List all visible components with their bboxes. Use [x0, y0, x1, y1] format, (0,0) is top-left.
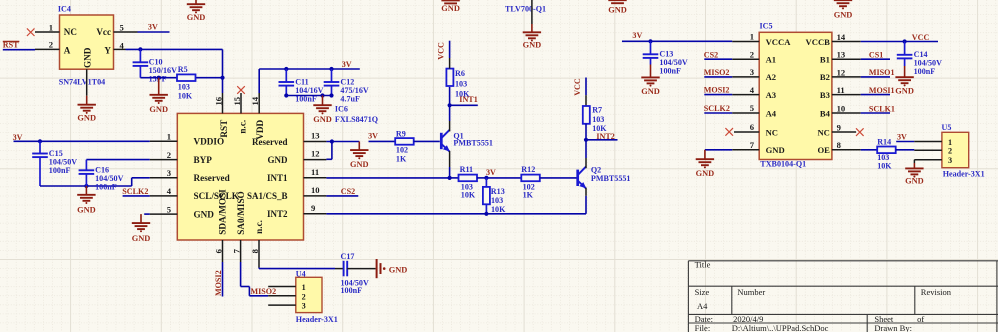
- svg-text:100nF: 100nF: [914, 67, 936, 76]
- svg-text:GND: GND: [77, 206, 96, 215]
- svg-text:5: 5: [167, 204, 171, 214]
- svg-text:SCLK1: SCLK1: [869, 104, 895, 113]
- svg-text:MISO1: MISO1: [869, 68, 895, 77]
- svg-text:100nF: 100nF: [95, 183, 117, 192]
- svg-text:4: 4: [120, 40, 125, 50]
- svg-text:INT2: INT2: [596, 132, 614, 141]
- svg-text:R9: R9: [396, 129, 406, 138]
- svg-text:CS2: CS2: [704, 50, 718, 59]
- svg-text:VCC: VCC: [437, 42, 446, 60]
- svg-text:3: 3: [750, 67, 754, 77]
- svg-text:INT2: INT2: [267, 209, 288, 219]
- svg-text:11: 11: [311, 167, 319, 177]
- svg-text:1K: 1K: [396, 155, 407, 164]
- svg-text:2: 2: [49, 40, 53, 50]
- svg-text:4: 4: [167, 186, 172, 196]
- svg-text:A4: A4: [766, 108, 777, 118]
- svg-text:2: 2: [948, 147, 952, 156]
- svg-text:8: 8: [837, 140, 842, 150]
- svg-text:13: 13: [837, 50, 846, 60]
- svg-text:GND: GND: [905, 177, 924, 186]
- svg-text:MISO2: MISO2: [704, 68, 730, 77]
- svg-text:GND: GND: [389, 265, 408, 274]
- svg-text:File:: File:: [695, 323, 711, 332]
- svg-text:Revision: Revision: [921, 287, 952, 297]
- svg-text:GND: GND: [77, 114, 96, 123]
- svg-text:103: 103: [592, 115, 604, 124]
- svg-text:SCLK2: SCLK2: [122, 187, 148, 196]
- svg-text:Vcc: Vcc: [96, 27, 111, 37]
- svg-text:GND: GND: [766, 145, 785, 155]
- svg-text:A4: A4: [697, 301, 708, 311]
- svg-text:GND: GND: [523, 41, 542, 50]
- svg-text:GND: GND: [194, 209, 215, 219]
- svg-text:U5: U5: [942, 123, 952, 132]
- svg-text:1: 1: [948, 138, 952, 147]
- svg-text:GND: GND: [696, 169, 715, 178]
- svg-text:15: 15: [232, 97, 242, 106]
- svg-text:R13: R13: [491, 187, 505, 196]
- svg-text:R7: R7: [592, 106, 602, 115]
- svg-text:R14: R14: [877, 137, 891, 146]
- svg-text:RST: RST: [219, 120, 229, 138]
- svg-text:VCCB: VCCB: [806, 37, 831, 47]
- svg-text:B4: B4: [820, 108, 831, 118]
- svg-text:10: 10: [837, 103, 846, 113]
- svg-text:B1: B1: [820, 55, 830, 65]
- svg-text:3V: 3V: [897, 133, 907, 142]
- svg-text:GND: GND: [187, 13, 206, 22]
- svg-text:3: 3: [302, 302, 306, 311]
- svg-text:16: 16: [214, 96, 224, 105]
- svg-text:MOSI2: MOSI2: [214, 270, 223, 296]
- svg-text:CS1: CS1: [869, 51, 883, 60]
- svg-text:5: 5: [120, 22, 124, 32]
- svg-text:GND: GND: [149, 105, 168, 114]
- svg-text:CS2: CS2: [341, 187, 355, 196]
- svg-text:D:\Altium\..\UPPad.SchDoc: D:\Altium\..\UPPad.SchDoc: [732, 323, 829, 332]
- svg-text:GND: GND: [350, 160, 369, 169]
- svg-text:GND: GND: [608, 5, 627, 14]
- svg-text:SN74LV1T04: SN74LV1T04: [59, 77, 105, 86]
- svg-text:Header-3X1: Header-3X1: [296, 315, 338, 324]
- svg-text:R5: R5: [178, 65, 188, 74]
- svg-text:R12: R12: [521, 165, 535, 174]
- svg-text:Drawn By:: Drawn By:: [874, 323, 912, 332]
- svg-text:NC: NC: [766, 127, 778, 137]
- svg-text:GND: GND: [441, 4, 460, 13]
- svg-text:MOSI2: MOSI2: [704, 86, 730, 95]
- svg-text:Y: Y: [104, 45, 111, 55]
- svg-text:n.c.: n.c.: [254, 220, 264, 234]
- svg-text:3V: 3V: [632, 31, 642, 40]
- svg-text:1: 1: [750, 32, 754, 42]
- svg-text:A3: A3: [766, 90, 777, 100]
- svg-text:3V: 3V: [368, 132, 378, 141]
- svg-text:3: 3: [948, 156, 952, 165]
- svg-text:102: 102: [396, 146, 408, 155]
- svg-text:8: 8: [250, 248, 260, 253]
- svg-text:PMBT5551: PMBT5551: [591, 174, 631, 183]
- svg-text:100nF: 100nF: [341, 286, 363, 295]
- svg-text:1K: 1K: [523, 191, 534, 200]
- svg-text:GND: GND: [641, 87, 660, 96]
- svg-text:7: 7: [750, 140, 755, 150]
- svg-text:1: 1: [167, 132, 171, 142]
- svg-text:3V: 3V: [486, 168, 496, 177]
- svg-text:MISO2: MISO2: [251, 287, 277, 296]
- svg-text:10K: 10K: [877, 161, 892, 170]
- svg-text:SA0/MISO: SA0/MISO: [236, 191, 246, 234]
- svg-text:2: 2: [750, 49, 754, 59]
- svg-text:of: of: [917, 314, 924, 324]
- svg-text:9: 9: [837, 122, 841, 132]
- svg-text:6: 6: [213, 248, 223, 253]
- svg-text:1: 1: [49, 22, 53, 32]
- svg-text:10K: 10K: [491, 205, 506, 214]
- svg-text:A: A: [64, 45, 71, 55]
- svg-text:2: 2: [167, 150, 171, 160]
- svg-text:1: 1: [302, 283, 306, 292]
- svg-text:2: 2: [302, 292, 306, 301]
- svg-text:GND: GND: [82, 47, 92, 68]
- svg-text:GND: GND: [895, 87, 914, 96]
- svg-text:IC6: IC6: [335, 105, 348, 114]
- svg-text:10K: 10K: [461, 191, 476, 200]
- svg-text:INT1: INT1: [459, 95, 477, 104]
- svg-text:VCC: VCC: [912, 33, 930, 42]
- svg-text:4.7uF: 4.7uF: [340, 94, 360, 103]
- svg-text:FXLS8471Q: FXLS8471Q: [335, 115, 378, 124]
- svg-text:IC5: IC5: [760, 22, 773, 31]
- svg-text:3V: 3V: [342, 60, 352, 69]
- svg-text:14: 14: [837, 32, 846, 42]
- svg-text:SCLK2: SCLK2: [704, 104, 730, 113]
- svg-text:4: 4: [750, 85, 755, 95]
- svg-text:100nF: 100nF: [659, 67, 681, 76]
- svg-text:3: 3: [167, 168, 171, 178]
- svg-text:TXB0104-Q1: TXB0104-Q1: [760, 159, 806, 168]
- svg-text:VCCA: VCCA: [766, 37, 792, 47]
- svg-text:PMBT5551: PMBT5551: [453, 138, 493, 147]
- svg-text:B2: B2: [820, 72, 830, 82]
- svg-text:12: 12: [837, 67, 846, 77]
- svg-text:NC: NC: [817, 127, 829, 137]
- svg-text:13: 13: [311, 131, 320, 141]
- svg-text:VDD: VDD: [255, 119, 265, 139]
- svg-text:BYP: BYP: [194, 155, 213, 165]
- svg-text:Header-3X1: Header-3X1: [943, 170, 985, 179]
- svg-text:B3: B3: [820, 90, 830, 100]
- svg-text:NC: NC: [64, 27, 77, 37]
- svg-text:3V: 3V: [148, 22, 158, 31]
- svg-text:7: 7: [231, 248, 241, 253]
- svg-text:SA1/CS_B: SA1/CS_B: [247, 191, 288, 201]
- svg-text:TLV700-Q1: TLV700-Q1: [505, 5, 546, 14]
- svg-text:SDA/MOSI: SDA/MOSI: [218, 189, 228, 235]
- svg-text:12: 12: [311, 149, 320, 159]
- svg-text:INT1: INT1: [267, 173, 288, 183]
- svg-text:U4: U4: [296, 269, 306, 278]
- svg-text:103: 103: [178, 82, 190, 91]
- svg-text:A1: A1: [766, 55, 777, 65]
- svg-text:VCC: VCC: [573, 78, 582, 96]
- svg-text:103: 103: [455, 80, 467, 89]
- svg-text:R6: R6: [455, 69, 465, 78]
- svg-text:GND: GND: [132, 234, 151, 243]
- svg-text:Reserved: Reserved: [194, 173, 230, 183]
- svg-text:n.c.: n.c.: [238, 120, 248, 134]
- svg-text:Number: Number: [737, 287, 765, 297]
- svg-text:Title: Title: [695, 260, 711, 270]
- svg-text:10K: 10K: [178, 91, 193, 100]
- svg-text:6: 6: [750, 122, 755, 132]
- svg-text:14: 14: [250, 96, 260, 105]
- svg-text:100nF: 100nF: [49, 166, 71, 175]
- svg-text:GND: GND: [313, 115, 332, 124]
- svg-text:R11: R11: [460, 165, 474, 174]
- svg-text:C17: C17: [341, 252, 355, 261]
- svg-text:GND: GND: [834, 11, 853, 20]
- svg-text:IC4: IC4: [58, 5, 71, 14]
- svg-text:A2: A2: [766, 72, 777, 82]
- svg-text:11: 11: [837, 85, 845, 95]
- svg-text:OE: OE: [817, 145, 830, 155]
- svg-text:10: 10: [311, 185, 320, 195]
- svg-text:GND: GND: [268, 155, 289, 165]
- svg-text:9: 9: [311, 203, 315, 213]
- svg-text:MOSI1: MOSI1: [869, 86, 895, 95]
- svg-text:5: 5: [750, 103, 754, 113]
- svg-text:Size: Size: [695, 287, 710, 297]
